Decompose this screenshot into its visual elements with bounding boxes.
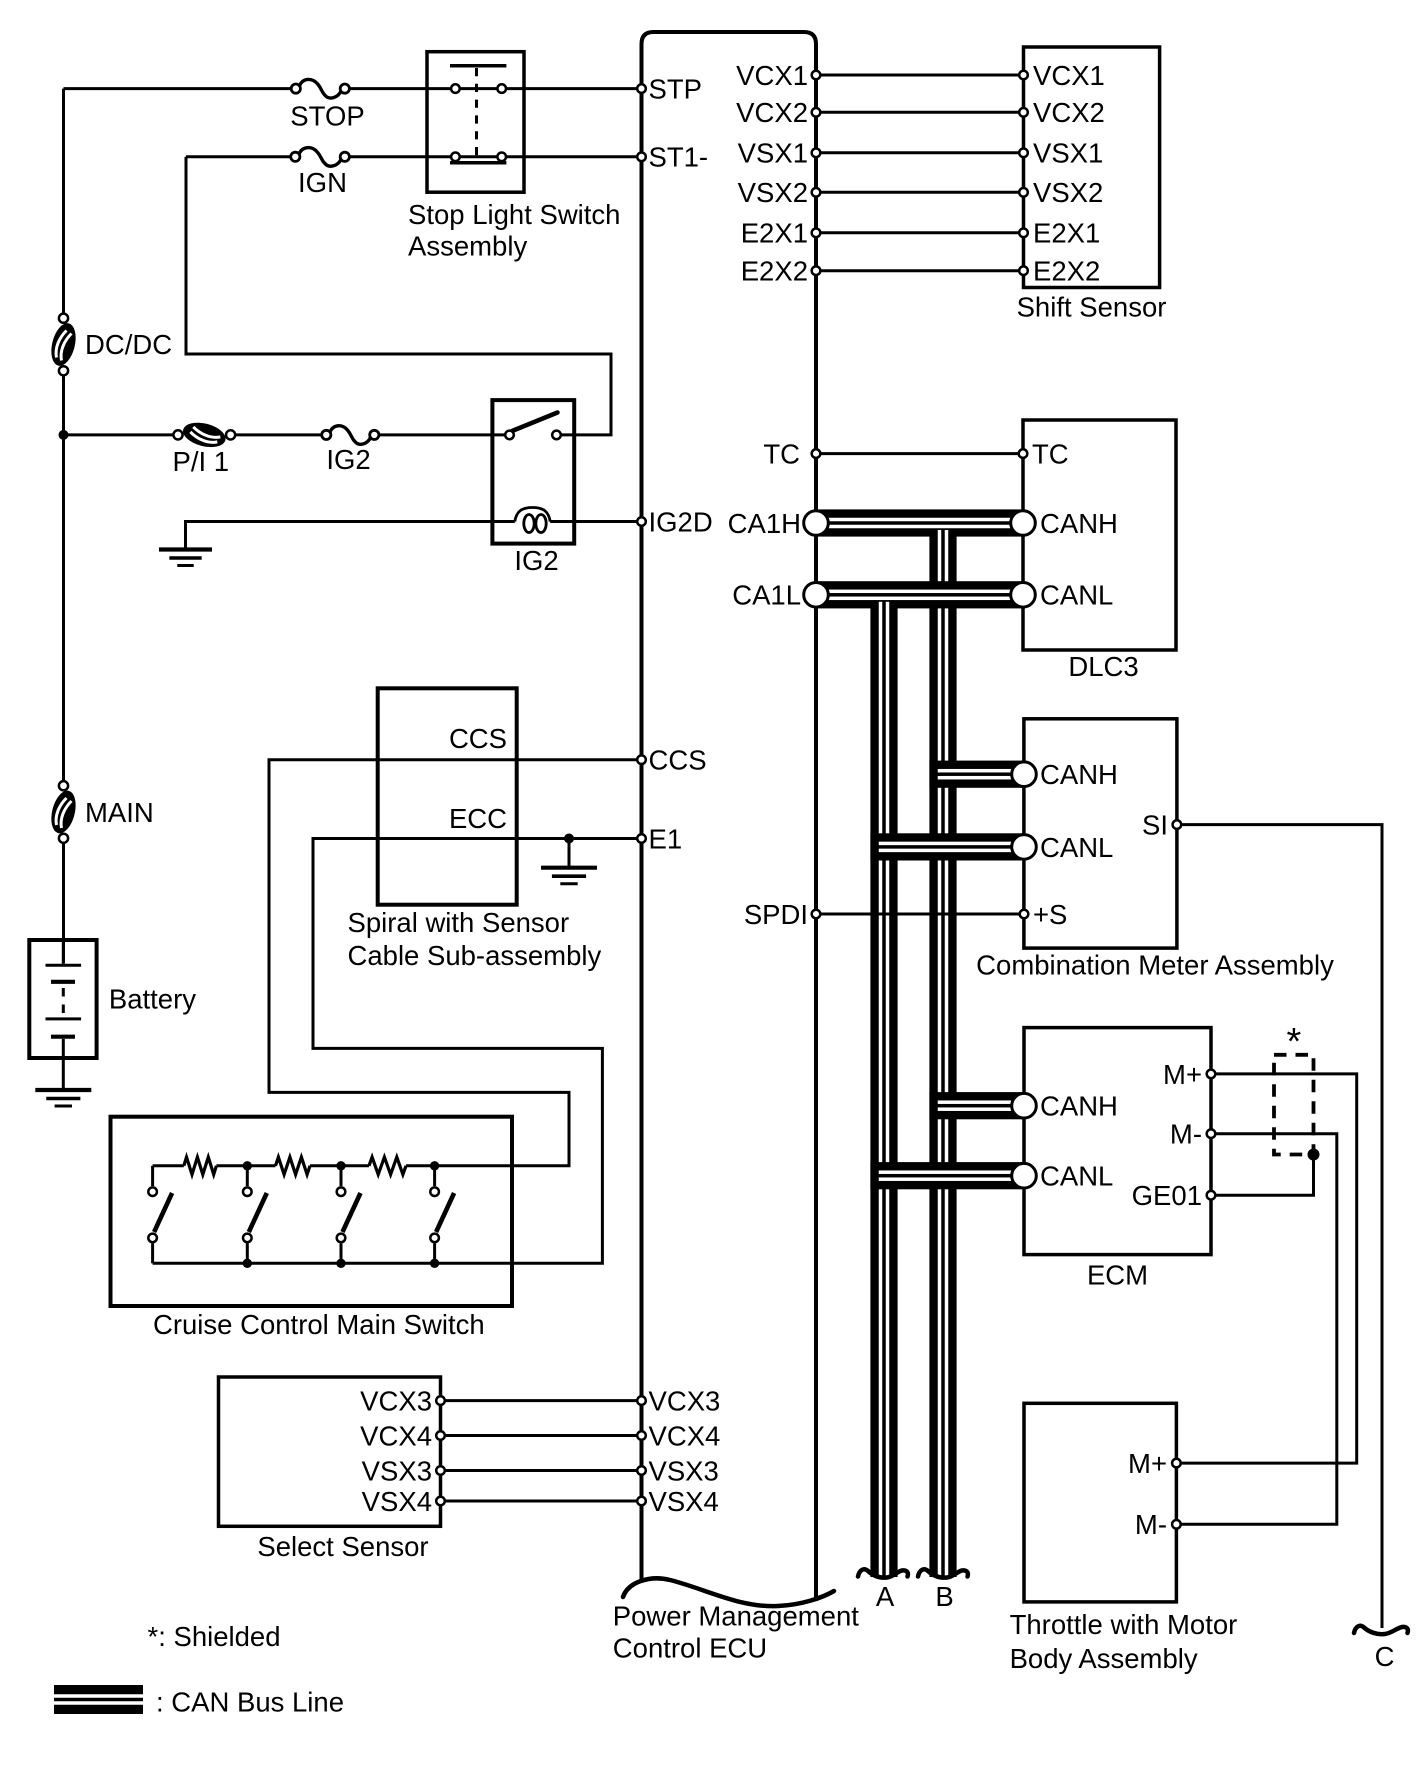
wire relay coil left to ground <box>186 522 515 550</box>
svg-text:M+: M+ <box>1163 1059 1202 1090</box>
svg-text:VSX1: VSX1 <box>738 138 808 169</box>
wire E2X2: ECU to shift sensor <box>816 269 1024 272</box>
wire SPDI: ECU to meter +S (over buses) <box>816 913 1024 916</box>
shift sensor pin E2X1 <box>1019 229 1028 238</box>
select sensor pin VCX4 <box>436 1431 445 1440</box>
shift sensor pin VCX1 <box>1019 71 1028 80</box>
svg-text:VCX1: VCX1 <box>736 60 808 91</box>
ECU pin VCX1 <box>812 71 821 80</box>
ECU pin ST1- <box>637 153 646 162</box>
select sensor pin VSX4 <box>436 1497 445 1506</box>
ECU pin VSX1 <box>812 149 821 158</box>
ground at E1 <box>541 866 597 870</box>
wire VSX4: select sensor to ECU <box>441 1500 642 1503</box>
relay IG2 switch blade <box>512 413 558 432</box>
fuse IG2 <box>330 426 371 445</box>
shift sensor pin VSX2 <box>1019 188 1028 197</box>
svg-text:M+: M+ <box>1128 1448 1167 1479</box>
svg-text:VSX4: VSX4 <box>362 1486 432 1517</box>
fusible link DC/DC <box>47 314 79 376</box>
svg-text:A: A <box>876 1581 895 1612</box>
svg-text:VCX2: VCX2 <box>736 97 808 128</box>
Battery box <box>29 940 96 1058</box>
ECM pin CANH <box>1012 1093 1037 1118</box>
ECU pin SPDI <box>812 910 821 919</box>
svg-text:B: B <box>935 1581 953 1612</box>
svg-text:M-: M- <box>1135 1509 1167 1540</box>
Stop Light Switch Assembly box <box>427 52 524 193</box>
svg-text:Throttle with Motor: Throttle with Motor <box>1010 1609 1238 1640</box>
throttle pin M- <box>1172 1520 1181 1529</box>
relay IG2 contacts <box>505 431 514 440</box>
meter pin CANH <box>1012 762 1037 787</box>
Throttle with Motor Body Assembly box <box>1024 1403 1176 1602</box>
ECU pin STP <box>637 84 646 93</box>
svg-text:Cable Sub-assembly: Cable Sub-assembly <box>348 940 602 971</box>
wire M+ : ECM to throttle <box>1176 1074 1356 1463</box>
fuse STOP <box>299 79 341 98</box>
ECU pin VCX3 <box>637 1396 646 1405</box>
ECU pin VSX4 <box>637 1497 646 1506</box>
relay IG2 coil <box>515 508 550 522</box>
svg-text:E2X1: E2X1 <box>1033 218 1100 249</box>
stop light switch top bar <box>450 64 506 68</box>
svg-text:Shift Sensor: Shift Sensor <box>1017 291 1167 322</box>
svg-text:Assembly: Assembly <box>408 230 527 261</box>
ECU pin E1 <box>637 834 646 843</box>
svg-text:ECC: ECC <box>449 803 507 834</box>
svg-text:CCS: CCS <box>449 723 507 754</box>
CAN bus stub meter CANL <box>870 833 1024 860</box>
cruise switch column 3 <box>340 1166 343 1186</box>
ECU pin VSX3 <box>637 1466 646 1475</box>
wire E2X1: ECU to shift sensor <box>816 231 1024 234</box>
svg-text:CA1L: CA1L <box>732 580 801 611</box>
svg-text:VSX2: VSX2 <box>1033 177 1103 208</box>
DLC3 pin CANH <box>1011 511 1036 536</box>
svg-text:IGN: IGN <box>298 167 347 198</box>
junction node battery feed / P/I 1 row <box>59 430 69 440</box>
ECM pin CANL <box>1012 1163 1037 1188</box>
connector C break <box>1354 1626 1408 1634</box>
ECU pin IG2D <box>637 517 646 526</box>
ECU pin CCS <box>637 755 646 764</box>
fusible link MAIN <box>47 781 79 843</box>
svg-text:DLC3: DLC3 <box>1068 651 1138 682</box>
wire E1 ground stub <box>568 839 571 868</box>
wire P/I 1 row <box>64 433 175 436</box>
svg-text:E1: E1 <box>649 823 683 854</box>
wire VCX2: ECU to shift sensor <box>816 111 1024 114</box>
svg-text:Spiral with Sensor: Spiral with Sensor <box>348 907 570 938</box>
svg-text:P/I 1: P/I 1 <box>173 446 230 477</box>
wire STP: battery feed to stop light switch to ECU STP <box>64 87 292 90</box>
wire left battery vertical <box>62 89 65 319</box>
cruise switch resistor R3 <box>369 1157 406 1174</box>
svg-text:TC: TC <box>1032 439 1069 470</box>
Power Management Control ECU box <box>642 32 817 1601</box>
svg-text:IG2: IG2 <box>514 545 558 576</box>
battery plate long 2 <box>46 1017 82 1020</box>
svg-text:M-: M- <box>1170 1119 1202 1150</box>
stop light switch contacts <box>451 84 460 93</box>
ECM pin GE01 <box>1207 1191 1216 1200</box>
select sensor pin VCX3 <box>436 1396 445 1405</box>
svg-text:Combination Meter Assembly: Combination Meter Assembly <box>976 949 1334 980</box>
svg-text:Power Management: Power Management <box>613 1601 859 1632</box>
DLC3 box <box>1023 420 1176 650</box>
svg-text:CA1H: CA1H <box>728 508 801 539</box>
svg-text:VSX3: VSX3 <box>649 1455 719 1486</box>
fusible link P/I 1 <box>173 419 235 451</box>
svg-text:VSX4: VSX4 <box>649 1486 719 1517</box>
cruise switch resistor rail <box>153 1164 184 1167</box>
CAN bus stub meter CANH <box>929 761 1024 788</box>
wire VCX3: select sensor to ECU <box>441 1399 642 1402</box>
ECU pin E2X1 <box>812 229 821 238</box>
ECU pin VCX4 <box>637 1431 646 1440</box>
Select Sensor box <box>219 1377 441 1526</box>
svg-text:IG2D: IG2D <box>649 506 713 537</box>
svg-text:VCX4: VCX4 <box>360 1420 432 1451</box>
battery plate long 1 <box>46 964 82 967</box>
svg-text:ECM: ECM <box>1087 1260 1148 1291</box>
svg-text:GE01: GE01 <box>1132 1180 1202 1211</box>
relay ground <box>159 547 212 551</box>
bus A break <box>858 1569 908 1577</box>
svg-text:VSX3: VSX3 <box>362 1455 432 1486</box>
battery bottom stub to ground <box>62 1039 65 1090</box>
ECU bottom break squiggle <box>623 1578 834 1606</box>
legend: CAN bus line sample <box>54 1685 143 1714</box>
svg-text:TC: TC <box>763 439 800 470</box>
svg-text:VSX2: VSX2 <box>738 177 808 208</box>
battery ground <box>35 1088 91 1092</box>
svg-text:E2X2: E2X2 <box>1033 256 1100 287</box>
svg-text:VCX2: VCX2 <box>1033 97 1105 128</box>
junction node E1 ground <box>564 834 574 844</box>
svg-text:CANL: CANL <box>1040 832 1113 863</box>
svg-text:VCX1: VCX1 <box>1033 60 1105 91</box>
CAN bus CA1L-CANL horizontal (ECU to DLC3) <box>816 581 1023 608</box>
select sensor pin VSX3 <box>436 1466 445 1475</box>
stop light switch bottom bar <box>450 161 506 165</box>
ECU pin VCX2 <box>812 108 821 117</box>
svg-text:Body Assembly: Body Assembly <box>1010 1643 1198 1674</box>
shift sensor pin VCX2 <box>1019 108 1028 117</box>
svg-text:Control ECU: Control ECU <box>613 1633 767 1664</box>
fuse IGN <box>299 148 342 167</box>
Combination Meter Assembly box <box>1024 719 1177 948</box>
meter pin SI <box>1173 820 1182 829</box>
wire VCX4: select sensor to ECU <box>441 1434 642 1437</box>
ECU pin CA1L <box>804 583 829 608</box>
svg-text:STP: STP <box>649 74 702 105</box>
ECU pin E2X2 <box>812 266 821 275</box>
wire SI: meter SI to connector C <box>1177 825 1382 1628</box>
shift sensor pin E2X2 <box>1019 266 1028 275</box>
wire IGN to ST1- <box>349 155 642 158</box>
svg-text:CANH: CANH <box>1040 759 1118 790</box>
shift sensor pin VSX1 <box>1019 149 1028 158</box>
svg-text:ST1-: ST1- <box>649 142 709 173</box>
svg-text:SI: SI <box>1142 810 1168 841</box>
svg-text:Cruise Control Main Switch: Cruise Control Main Switch <box>153 1309 485 1340</box>
battery plate short 2 <box>51 1035 75 1039</box>
svg-text:CANH: CANH <box>1040 1091 1118 1122</box>
cruise switch resistor R2 <box>276 1157 311 1174</box>
svg-text:Stop Light Switch: Stop Light Switch <box>408 199 620 230</box>
throttle pin M+ <box>1172 1459 1181 1468</box>
svg-text:Battery: Battery <box>109 984 196 1015</box>
svg-text:*: Shielded: *: Shielded <box>148 1621 281 1652</box>
wire M- : ECM to throttle <box>1176 1134 1336 1525</box>
DLC3 pin CANL <box>1011 583 1036 608</box>
meter pin CANL <box>1012 835 1037 860</box>
Cruise Control Main Switch box <box>111 1117 513 1306</box>
wire VCX1: ECU to shift sensor <box>816 74 1024 77</box>
shielded cable dashed box <box>1274 1055 1314 1155</box>
wire VSX2: ECU to shift sensor <box>816 191 1024 194</box>
svg-text:STOP: STOP <box>290 100 364 131</box>
svg-text:E2X2: E2X2 <box>741 256 808 287</box>
svg-text:VSX1: VSX1 <box>1033 138 1103 169</box>
svg-text:CANL: CANL <box>1040 1161 1113 1192</box>
wire IGN feed down-right to relay contact <box>186 157 611 435</box>
svg-text:IG2: IG2 <box>326 444 370 475</box>
wire TC: ECU to DLC3 <box>816 452 1023 455</box>
ECM pin M+ <box>1207 1070 1216 1079</box>
wire CCS: ECU CCS to cruise switch resistor rail <box>269 760 642 1166</box>
ECM box <box>1024 1028 1211 1255</box>
battery top stub <box>62 940 65 964</box>
ECU pin TC <box>812 449 821 458</box>
cruise switch resistor R1 <box>184 1157 217 1174</box>
wire E1/ECC: ECU E1 to cruise switch bottom rail <box>153 839 642 1264</box>
cruise switch column 1 <box>151 1166 154 1186</box>
svg-text:CANL: CANL <box>1040 580 1113 611</box>
svg-text:VCX3: VCX3 <box>360 1386 432 1417</box>
cruise switch column 4 <box>433 1166 436 1186</box>
svg-text:SPDI: SPDI <box>744 899 808 930</box>
DLC3 pin TC <box>1019 449 1028 458</box>
wire GE01 to shield ground point <box>1211 1155 1314 1196</box>
battery plate short 1 <box>51 980 75 984</box>
Spiral with Sensor Cable Sub-assembly box <box>378 688 517 904</box>
CAN bus stub ECM CANL <box>870 1162 1024 1189</box>
svg-text:Select Sensor: Select Sensor <box>257 1531 428 1562</box>
svg-text:C: C <box>1375 1641 1395 1672</box>
CAN bus main B vertical <box>929 523 956 1577</box>
svg-text:*: * <box>1287 1021 1302 1063</box>
battery dashed cells <box>62 988 65 1014</box>
svg-text:CCS: CCS <box>649 745 707 776</box>
Shift Sensor box <box>1024 47 1160 288</box>
CAN bus stub ECM CANH <box>929 1092 1024 1119</box>
relay IG2 box <box>492 400 574 543</box>
svg-text:VCX3: VCX3 <box>649 1386 721 1417</box>
stop light switch linkage dashed <box>475 68 478 160</box>
svg-text:CANH: CANH <box>1040 508 1118 539</box>
svg-text:DC/DC: DC/DC <box>85 329 172 360</box>
ECU pin VSX2 <box>812 188 821 197</box>
ECM pin M- <box>1207 1129 1216 1138</box>
wire VSX1: ECU to shift sensor <box>816 151 1024 154</box>
wire relay coil right to ECU IG2D <box>550 520 641 523</box>
svg-text:E2X1: E2X1 <box>741 218 808 249</box>
svg-text:VCX4: VCX4 <box>649 1420 721 1451</box>
ECU pin CA1H <box>804 511 829 536</box>
wire VSX3: select sensor to ECU <box>441 1469 642 1472</box>
shield ground node <box>1308 1149 1320 1161</box>
meter pin +S <box>1020 910 1029 919</box>
svg-text:MAIN: MAIN <box>85 797 154 828</box>
CAN bus CA1H-CANH horizontal (ECU to DLC3) <box>816 509 1023 536</box>
bus B break <box>918 1569 968 1577</box>
CAN bus white stripes <box>816 518 1023 522</box>
svg-text:: CAN Bus Line: : CAN Bus Line <box>156 1686 344 1717</box>
CAN bus main A vertical <box>870 595 897 1577</box>
cruise switch column 2 <box>246 1166 249 1186</box>
svg-text:+S: +S <box>1033 899 1067 930</box>
